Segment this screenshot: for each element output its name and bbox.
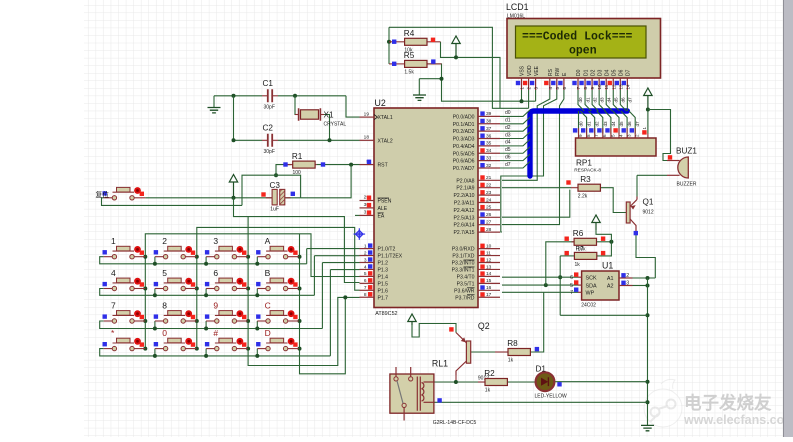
wire XTAL2 net with C2 xyxy=(233,96,235,141)
svg-text:d0: d0 xyxy=(579,121,584,127)
pin RP1 8 xyxy=(586,128,588,138)
svg-text:7: 7 xyxy=(364,285,367,291)
pin U2 P0.3/AD3 (36) xyxy=(478,138,500,140)
wire LCD E to MCU P2.6 xyxy=(502,90,564,225)
pin U2 P2.4/A12 (25) xyxy=(478,209,500,211)
wire keypad row 3 to MCU P1.2 xyxy=(322,262,359,264)
resistor R6 xyxy=(572,241,575,243)
svg-text:P3.6/WR: P3.6/WR xyxy=(454,288,475,294)
pin U2 P1.5 (6) xyxy=(360,282,375,284)
svg-text:9012: 9012 xyxy=(643,210,654,216)
resistor R2 xyxy=(478,381,485,383)
wire LCD D6 to bus, net d6 xyxy=(620,90,626,111)
svg-text:WP: WP xyxy=(586,291,595,297)
svg-text:d4: d4 xyxy=(606,97,611,103)
svg-text:P2.3/A11: P2.3/A11 xyxy=(454,201,475,207)
svg-text:P2.2/A10: P2.2/A10 xyxy=(454,193,475,199)
wire crystal right lead to XTAL2 net xyxy=(320,115,329,141)
pin RP1 6 xyxy=(602,128,604,138)
wire bus to RP1 pin 6, net d3 xyxy=(597,111,603,134)
svg-text:BUZZER: BUZZER xyxy=(677,182,697,188)
wire R4/R5 left junction vertical xyxy=(388,27,390,64)
pin RP1 9 xyxy=(578,128,580,138)
svg-text:2: 2 xyxy=(626,273,629,279)
pin U2 P0.7/AD7 (32) xyxy=(478,167,500,169)
pin U2 P3.1/TXD (11) xyxy=(478,255,500,257)
svg-text:VSS: VSS xyxy=(520,65,526,76)
wire RST branch down to reset row xyxy=(301,165,352,198)
wire keypad column 1 to MCU P1.4 xyxy=(145,234,359,349)
svg-text:P1.4: P1.4 xyxy=(378,274,389,280)
svg-text:P2.7/A15: P2.7/A15 xyxy=(454,230,475,236)
pin LCD1 VDD (2) xyxy=(528,78,530,90)
svg-text:3: 3 xyxy=(627,134,632,137)
resistor R8 xyxy=(495,351,508,353)
wire VCC to RP1 pin 1 xyxy=(647,110,649,134)
wire keypad column 3 vertical xyxy=(247,217,249,349)
resistor pack RP1 RESPACK-8 xyxy=(576,138,657,156)
pin U1 SCK (6) xyxy=(578,276,582,278)
wire keypad column 3 bottom route to MCU P1.7 xyxy=(248,297,359,365)
wire keypad row 1 riser col 3 xyxy=(205,257,207,264)
node VDD drop from LCD pin 2 xyxy=(528,90,530,108)
wire P0.1 to bus, net d1 xyxy=(500,117,530,124)
svg-text:P1.6: P1.6 xyxy=(378,288,389,294)
wire keypad column A bottom route xyxy=(300,297,346,373)
svg-text:RL1: RL1 xyxy=(432,359,448,369)
svg-text:P0.4/AD4: P0.4/AD4 xyxy=(453,144,475,150)
svg-text:14: 14 xyxy=(486,271,492,277)
wire keypad row 2 bus xyxy=(100,289,315,296)
junction C1 net xyxy=(232,94,236,98)
wire SDA branch up to R6 xyxy=(546,242,575,285)
svg-text:复位: 复位 xyxy=(96,190,110,199)
svg-text:4: 4 xyxy=(364,264,367,270)
svg-text:6: 6 xyxy=(570,275,573,281)
svg-text:VDD: VDD xyxy=(527,65,533,76)
pin LCD1 D3 (10) xyxy=(598,78,600,90)
svg-text:5: 5 xyxy=(555,87,560,90)
svg-text:12: 12 xyxy=(486,257,492,263)
svg-text:35: 35 xyxy=(486,141,492,147)
wire R5 right to ground and VSS rail xyxy=(427,64,536,101)
pin LCD1 D0 (7) xyxy=(577,78,579,90)
junctions keypad column 3 xyxy=(246,255,250,259)
pin U2 P0.1/AD1 (38) xyxy=(478,123,500,125)
svg-text:P3.1/TXD: P3.1/TXD xyxy=(452,254,474,260)
svg-text:D4: D4 xyxy=(604,69,610,76)
wire VCC rail right of R4 xyxy=(441,42,501,109)
pin LCD1 E (6) xyxy=(563,78,565,90)
svg-text:2: 2 xyxy=(635,134,640,137)
wire P0.2 to bus, net d2 xyxy=(500,125,530,132)
pin LCD1 D6 (13) xyxy=(619,78,621,90)
svg-text:1: 1 xyxy=(111,236,116,246)
wire R6 R7 right side to VCC xyxy=(596,241,611,243)
svg-text:1k: 1k xyxy=(575,262,581,268)
svg-text:5: 5 xyxy=(162,268,167,278)
wire P0.0 to bus, net d0 xyxy=(500,110,530,117)
svg-text:P0.5/AD5: P0.5/AD5 xyxy=(453,151,475,157)
svg-text:2: 2 xyxy=(162,236,167,246)
svg-text:1: 1 xyxy=(520,87,525,90)
pin U1 WP (7) xyxy=(578,291,582,293)
wire LED D1 to ground vertical xyxy=(555,381,648,383)
wire keypad row 2 to MCU P1.1 xyxy=(314,255,359,257)
svg-text:5: 5 xyxy=(570,283,573,289)
svg-text:G2RL-14B-CF-DC5: G2RL-14B-CF-DC5 xyxy=(433,420,477,426)
wire relay coil top to R2 xyxy=(434,381,485,383)
svg-text:===Coded Lock===: ===Coded Lock=== xyxy=(522,31,633,44)
wire R7 left lead xyxy=(560,255,575,257)
svg-text:22: 22 xyxy=(486,183,492,189)
resistor R1 xyxy=(284,164,293,166)
svg-text:Q1: Q1 xyxy=(643,198,654,207)
wire ground vertical right side xyxy=(647,278,649,425)
wire ground stem left of C1 xyxy=(213,96,215,108)
pin U2 P2.2/A10 (23) xyxy=(478,194,500,196)
wire U1 ground branch xyxy=(560,314,647,316)
pin LCD1 D1 (8) xyxy=(584,78,586,90)
svg-text:d3: d3 xyxy=(505,132,511,138)
wire LCD D1 to bus, net d1 xyxy=(585,90,591,111)
svg-text:C2: C2 xyxy=(263,124,274,133)
svg-text:7: 7 xyxy=(594,134,599,137)
svg-text:Q2: Q2 xyxy=(478,321,490,331)
svg-text:P0.2/AD2: P0.2/AD2 xyxy=(453,129,475,135)
svg-text:d6: d6 xyxy=(621,97,626,103)
svg-text:11: 11 xyxy=(486,250,491,256)
wire VEE rail from R4/R5 junction to LCD area xyxy=(389,27,529,108)
svg-text:4: 4 xyxy=(618,134,623,137)
pin U2 P3.7/RD (17) xyxy=(478,296,500,298)
wire reset button row to C3 xyxy=(145,197,272,199)
svg-text:open: open xyxy=(569,45,597,58)
svg-text:#: # xyxy=(213,328,218,338)
window scrollbar strip xyxy=(784,0,793,437)
power VCC arrow at reset capacitor xyxy=(229,175,237,198)
svg-text:d3: d3 xyxy=(603,121,608,127)
pin LCD1 VEE (3) xyxy=(535,78,537,90)
svg-text:21: 21 xyxy=(486,175,492,181)
svg-text:P0.3/AD3: P0.3/AD3 xyxy=(453,137,475,143)
svg-text:U1: U1 xyxy=(602,261,613,271)
svg-text:100: 100 xyxy=(293,170,302,176)
svg-text:d2: d2 xyxy=(505,125,511,131)
svg-text:6: 6 xyxy=(213,268,218,278)
pin LCD1 VSS (1) xyxy=(521,78,523,90)
svg-text:9: 9 xyxy=(578,134,583,137)
svg-text:10: 10 xyxy=(486,243,492,249)
svg-text:RW: RW xyxy=(555,67,561,76)
svg-text:CRYSTAL: CRYSTAL xyxy=(324,122,347,128)
wire keypad column A vertical xyxy=(299,234,301,349)
svg-text:14: 14 xyxy=(625,84,630,90)
wire MCU P3.6 to U1 WP xyxy=(502,291,578,293)
svg-text:7: 7 xyxy=(576,87,581,90)
pin RP1 5 xyxy=(610,128,612,138)
svg-text:SCK: SCK xyxy=(586,275,597,281)
svg-text:XTAL1: XTAL1 xyxy=(378,115,393,121)
svg-text:38: 38 xyxy=(486,119,492,125)
svg-text:A: A xyxy=(265,236,271,246)
svg-text:PSEN: PSEN xyxy=(378,199,392,205)
pin U1 A2 (3) xyxy=(619,285,633,287)
svg-text:X1: X1 xyxy=(324,111,334,120)
wire P0.4 to bus, net d4 xyxy=(500,139,530,146)
svg-text:ALE: ALE xyxy=(378,206,388,212)
svg-text:P1.5: P1.5 xyxy=(378,281,389,287)
pin U2 ALE (30) xyxy=(360,207,375,209)
wire LCD D4 to bus, net d4 xyxy=(606,90,612,111)
svg-text:3: 3 xyxy=(364,257,367,263)
wire bus to RP1 pin 9, net d0 xyxy=(578,111,580,134)
pin U2 P1.6 (7) xyxy=(360,289,375,291)
power VCC arrow above RP1 xyxy=(644,88,652,110)
svg-text:P1.1/T2EX: P1.1/T2EX xyxy=(378,254,403,260)
svg-text:P1.3: P1.3 xyxy=(378,267,389,273)
power VCC arrow at Q2 xyxy=(408,314,416,325)
wire RST row to MCU xyxy=(317,164,360,166)
svg-text:16: 16 xyxy=(486,285,492,291)
pin U2 P3.6/WR (16) xyxy=(478,289,500,291)
svg-text:P2.0/A8: P2.0/A8 xyxy=(456,178,474,184)
svg-text:RP1: RP1 xyxy=(576,159,592,168)
ground GND4 bottom right xyxy=(641,425,654,430)
svg-text:3: 3 xyxy=(213,236,218,246)
pin U2 P2.5/A13 (26) xyxy=(478,216,500,218)
pin U2 XTAL2 (18) xyxy=(360,139,375,141)
pin U1 A1 (2) xyxy=(619,277,633,279)
pin U2 P1.3 (4) xyxy=(360,268,375,270)
svg-text:9: 9 xyxy=(213,301,218,311)
svg-text:P2.6/A14: P2.6/A14 xyxy=(454,223,475,229)
svg-text:EA: EA xyxy=(378,213,385,219)
svg-text:C: C xyxy=(265,301,271,311)
svg-text:d4: d4 xyxy=(505,140,511,146)
pin LCD1 RW (5) xyxy=(556,78,558,90)
svg-text:VEE: VEE xyxy=(534,65,540,76)
pin RP1 3 xyxy=(626,128,628,138)
svg-text:D3: D3 xyxy=(597,69,603,76)
pin U1 SDA (5) xyxy=(578,284,582,286)
svg-text:BUZ1: BUZ1 xyxy=(676,147,697,156)
wire U1 A1 to vertical xyxy=(633,277,656,279)
junctions keypad column 1 xyxy=(143,255,147,259)
wire EA stub row xyxy=(355,214,360,216)
svg-text:d6: d6 xyxy=(505,154,511,160)
wire LCD D5 to bus, net d5 xyxy=(613,90,619,111)
svg-text:D1: D1 xyxy=(583,69,589,76)
svg-text:P1.0/T2: P1.0/T2 xyxy=(378,247,396,253)
svg-text:8: 8 xyxy=(162,301,167,311)
svg-text:D0: D0 xyxy=(576,69,582,76)
junctions keypad column 2 xyxy=(195,255,199,259)
wire keypad row 2 riser col 2 xyxy=(154,289,156,296)
node VSS drop from LCD pin 1 xyxy=(521,90,523,101)
wire loop above C3 xyxy=(242,175,301,205)
resistor R7 xyxy=(573,255,576,257)
wire keypad column 2 to MCU P1.6 xyxy=(197,227,360,348)
svg-text:30pF: 30pF xyxy=(264,104,275,110)
wire LCD D0 to bus, net d0 xyxy=(578,90,584,111)
svg-text:d0: d0 xyxy=(578,97,583,103)
power VCC arrow between R4 R5 xyxy=(452,36,460,57)
svg-text:P0.1/AD1: P0.1/AD1 xyxy=(453,122,475,128)
svg-text:P2.5/A13: P2.5/A13 xyxy=(454,215,475,221)
svg-text:8: 8 xyxy=(583,87,588,90)
decorative watermark logo xyxy=(644,379,682,427)
svg-text:36: 36 xyxy=(486,133,492,139)
svg-text:10k: 10k xyxy=(578,246,587,252)
svg-text:d7: d7 xyxy=(628,97,633,103)
svg-text:D2: D2 xyxy=(590,69,596,76)
pin LCD1 D4 (11) xyxy=(605,78,607,90)
pin LCD1 RS (4) xyxy=(549,78,551,90)
wire keypad row 3 bus xyxy=(100,321,323,329)
svg-text:P2.4/A12: P2.4/A12 xyxy=(454,208,475,214)
svg-text:1k: 1k xyxy=(485,388,491,394)
svg-text:39: 39 xyxy=(486,111,492,117)
svg-text:d2: d2 xyxy=(595,121,600,127)
junction VCC arrow R4 xyxy=(454,55,458,59)
pin U2 P0.2/AD2 (37) xyxy=(478,130,500,132)
svg-text:13: 13 xyxy=(486,264,492,270)
wire keypad row 3 riser col 4 xyxy=(256,321,258,329)
capacitor C2 xyxy=(262,139,268,141)
wire LCD D3 to bus, net d3 xyxy=(599,90,605,111)
svg-text:d3: d3 xyxy=(599,97,604,103)
svg-text:24: 24 xyxy=(486,197,492,203)
wire keypad row 4 bus xyxy=(100,349,331,356)
pin RP1 2 xyxy=(634,128,636,138)
pin U2 RST (9) xyxy=(360,164,375,166)
wire bus to RP1 pin 3, net d6 xyxy=(621,111,627,134)
pin RP1 7 xyxy=(594,128,596,138)
wire R3 to Q1 base xyxy=(600,188,626,213)
svg-text:U2: U2 xyxy=(375,98,386,108)
wire keypad row 4 riser col 3 xyxy=(205,349,207,356)
pin U2 XTAL1 (19) xyxy=(360,116,375,118)
svg-text:37: 37 xyxy=(486,126,492,132)
svg-text:33: 33 xyxy=(486,155,492,161)
pin U2 P2.1/A9 (22) xyxy=(478,187,500,189)
svg-text:26: 26 xyxy=(486,212,492,218)
crystal X1 xyxy=(301,110,319,119)
svg-text:D5: D5 xyxy=(611,69,617,76)
svg-text:R1: R1 xyxy=(292,152,303,161)
svg-text:d6: d6 xyxy=(627,121,632,127)
svg-text:24C02: 24C02 xyxy=(581,303,596,309)
svg-text:B: B xyxy=(265,268,271,278)
ground GND1 left of C1 xyxy=(208,108,221,113)
svg-text:1: 1 xyxy=(364,243,367,249)
svg-text:P3.5/T1: P3.5/T1 xyxy=(457,281,475,287)
svg-text:18: 18 xyxy=(364,135,370,141)
wire P0.3 to bus, net d3 xyxy=(500,132,530,139)
svg-text:d7: d7 xyxy=(635,121,640,127)
svg-text:P0.7/AD7: P0.7/AD7 xyxy=(453,166,475,172)
svg-text:RS: RS xyxy=(548,68,554,76)
svg-text:34: 34 xyxy=(486,148,492,154)
svg-text:A1: A1 xyxy=(607,276,614,282)
wire reset button left route xyxy=(102,198,243,206)
wire keypad row 3 riser col 3 xyxy=(205,321,207,329)
svg-text:C1: C1 xyxy=(263,79,274,88)
wire P0.5 to bus, net d5 xyxy=(500,147,530,154)
svg-text:P3.0/RXD: P3.0/RXD xyxy=(452,247,475,253)
wire buzzer bottom to Q1 emitter xyxy=(637,174,667,176)
pin U2 P2.6/A14 (27) xyxy=(478,224,500,226)
pin U2 P1.0/T2 (1) xyxy=(360,248,375,250)
pin LCD1 D7 (14) xyxy=(626,78,628,90)
wire U1 A2 to vertical xyxy=(633,285,648,287)
svg-text:9: 9 xyxy=(590,87,595,90)
svg-text:A2: A2 xyxy=(607,284,614,290)
pin U2 P0.4/AD4 (35) xyxy=(478,145,500,147)
svg-text:23: 23 xyxy=(486,190,492,196)
wire MCU P3.4 to U1 SCK xyxy=(502,276,578,278)
pin U2 P3.0/RXD (10) xyxy=(478,248,500,250)
svg-text:d4: d4 xyxy=(611,121,616,127)
svg-text:0: 0 xyxy=(162,328,167,338)
wire bus to RP1 pin 2, net d7 xyxy=(629,111,635,134)
svg-text:d1: d1 xyxy=(585,97,590,103)
wire VCC zigzag to Q2 emitter xyxy=(412,324,456,338)
svg-text:7: 7 xyxy=(111,301,116,311)
svg-text:30pF: 30pF xyxy=(264,149,275,155)
pin RP1 1 xyxy=(647,134,649,139)
svg-text:P3.3/INT1: P3.3/INT1 xyxy=(452,267,475,273)
svg-text:7: 7 xyxy=(570,290,573,296)
svg-text:D7: D7 xyxy=(626,69,632,76)
svg-text:AT89C52: AT89C52 xyxy=(375,311,397,317)
svg-text:d0: d0 xyxy=(505,110,511,116)
pin U2 P2.3/A11 (24) xyxy=(478,202,500,204)
svg-text:P3.2/INT0: P3.2/INT0 xyxy=(452,261,475,267)
wire MCU P2.5 stub route xyxy=(502,190,570,218)
wire R1 left to loop xyxy=(276,165,291,176)
svg-text:19: 19 xyxy=(364,111,370,117)
svg-text:1uF: 1uF xyxy=(270,207,279,213)
wire XTAL1 net with C1 xyxy=(214,95,262,97)
wire P3.6 branch down to R8 xyxy=(531,292,544,352)
resistor R5 xyxy=(389,63,405,65)
svg-text:8: 8 xyxy=(364,292,367,298)
svg-text:d7: d7 xyxy=(505,162,511,168)
svg-text:电子发烧友: 电子发烧友 xyxy=(684,393,772,413)
svg-text:P0.6/AD6: P0.6/AD6 xyxy=(453,159,475,165)
wire keypad row 2 riser col 4 xyxy=(256,289,258,296)
svg-text:D: D xyxy=(265,328,271,338)
wire keypad row 1 riser col 4 xyxy=(256,257,258,264)
wire LCD D2 to bus, net d2 xyxy=(592,90,598,111)
pin U2 P0.0/AD0 (39) xyxy=(478,115,500,117)
svg-text:3: 3 xyxy=(626,281,629,287)
pin LCD1 D5 (12) xyxy=(612,78,614,90)
svg-text:LED-YELLOW: LED-YELLOW xyxy=(535,394,568,400)
wire ground branch under R5 xyxy=(419,78,441,80)
power VCC arrow above R6 xyxy=(592,215,600,230)
svg-text:1: 1 xyxy=(642,127,647,130)
resistor R4 xyxy=(389,41,405,43)
pin U2 P0.6/AD6 (33) xyxy=(478,160,500,162)
wire R7 left / SCK vertical xyxy=(559,256,561,315)
svg-text:6: 6 xyxy=(364,278,367,284)
wire Q1 collector down to U1 A1 node xyxy=(636,234,655,278)
wire reset net to keypad stair P1.5 xyxy=(234,198,360,283)
svg-text:D1: D1 xyxy=(536,365,547,374)
